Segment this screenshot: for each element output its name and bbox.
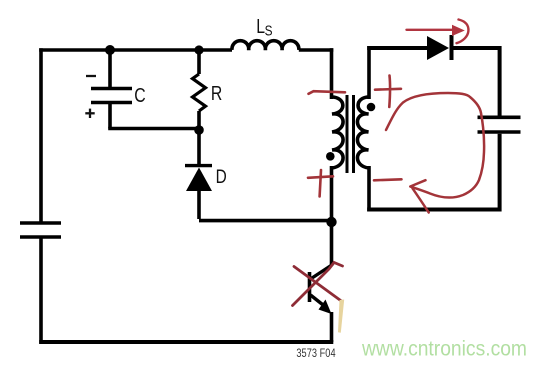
svg-text:L: L bbox=[256, 15, 265, 37]
svg-text:D: D bbox=[216, 165, 227, 187]
svg-text:www.cntronics.com: www.cntronics.com bbox=[361, 337, 527, 361]
svg-text:R: R bbox=[211, 82, 222, 104]
svg-text:3573 F04: 3573 F04 bbox=[296, 348, 335, 360]
svg-text:S: S bbox=[265, 22, 273, 39]
svg-text:C: C bbox=[134, 84, 145, 106]
